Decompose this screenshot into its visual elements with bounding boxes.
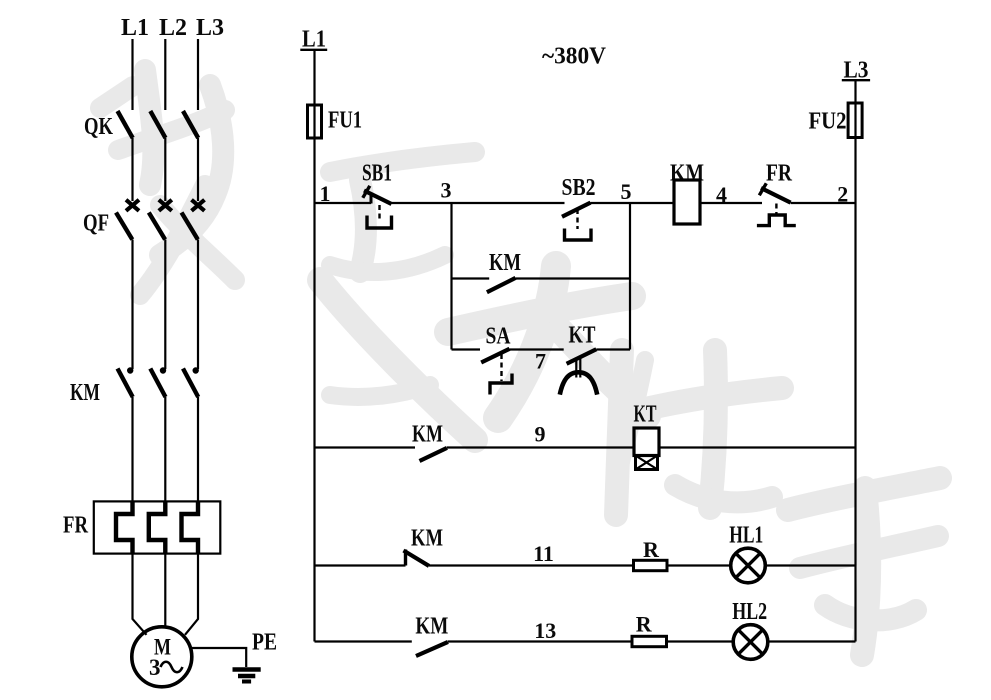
time relay coil KT delay element xyxy=(636,456,658,470)
svg-text:5: 5 xyxy=(621,179,632,204)
wire branch left vertical (node 3) xyxy=(450,203,452,350)
svg-text:KT: KT xyxy=(569,323,596,349)
svg-text:L1: L1 xyxy=(121,15,149,41)
wire phase3 KM to FR xyxy=(197,397,199,502)
wire FR to right rail xyxy=(791,202,856,204)
contactor KM main pole3 contact xyxy=(183,367,199,397)
wire rail to KM contact (rung4) xyxy=(315,640,412,642)
timed contact KT (NO delayed) xyxy=(560,349,597,394)
wire HL2 to right rail xyxy=(768,640,856,642)
svg-text:2: 2 xyxy=(837,182,848,207)
time relay coil KT body xyxy=(634,428,659,456)
wire R to HL2 xyxy=(667,640,734,642)
svg-text:~380V: ~380V xyxy=(542,44,607,70)
wire motor to PE xyxy=(192,648,246,667)
lamp HL2 xyxy=(733,625,768,660)
svg-text:PE: PE xyxy=(252,630,277,656)
wire KT contact to branch right xyxy=(596,348,630,350)
svg-text:11: 11 xyxy=(533,541,554,566)
contactor KM main pole2 contact xyxy=(150,367,166,397)
contactor coil KM xyxy=(674,180,700,224)
breaker QF pole3 cross mark xyxy=(192,200,205,211)
wire phase2 QF to KM xyxy=(164,240,166,370)
svg-text:L2: L2 xyxy=(159,15,187,41)
fuse FU2 xyxy=(848,103,862,138)
motor 3-phase mark xyxy=(149,655,183,680)
svg-text:L3: L3 xyxy=(196,15,224,41)
wire KM contact to KT coil xyxy=(447,446,634,448)
thermal relay FR heater phase3 xyxy=(182,501,199,553)
thermal relay FR heater phase1 xyxy=(116,501,133,553)
wire SB1 to SB2 xyxy=(392,202,565,204)
contact KM (NC, rung3) xyxy=(404,550,430,566)
wire phase1 QK to QF xyxy=(131,138,133,201)
svg-text:KM: KM xyxy=(412,422,443,448)
wire R to HL1 xyxy=(667,564,731,566)
wire phase2 QK to QF xyxy=(164,138,166,201)
wire phase1 FR to motor xyxy=(133,554,147,635)
wire phase3 FR to motor xyxy=(185,554,198,635)
svg-text:KM: KM xyxy=(411,526,443,552)
wire phase1 KM to FR xyxy=(131,397,133,502)
svg-text:KM: KM xyxy=(489,250,521,276)
svg-text:SB2: SB2 xyxy=(562,175,596,201)
svg-text:R: R xyxy=(636,612,653,637)
resistor R (rung4) xyxy=(632,636,667,646)
svg-text:SB1: SB1 xyxy=(362,161,392,187)
wire phase2 FR to motor xyxy=(164,554,166,627)
svg-text:FU2: FU2 xyxy=(809,109,847,135)
svg-text:FU1: FU1 xyxy=(328,108,362,134)
svg-text:HL2: HL2 xyxy=(732,599,767,625)
wire KT coil to right rail xyxy=(659,446,856,448)
switch SA (manual) xyxy=(481,349,512,395)
watermark stroke group xyxy=(100,70,940,655)
wire phase3 QK to QF xyxy=(197,138,199,201)
ground symbol xyxy=(233,670,261,682)
knife switch QK pole 1 blade xyxy=(118,111,133,138)
motor M circle xyxy=(132,627,192,687)
svg-text:SA: SA xyxy=(486,324,512,350)
svg-text:FR: FR xyxy=(766,161,793,187)
svg-text:3: 3 xyxy=(441,178,452,203)
wire rail to KM contact (rung3) xyxy=(315,564,406,566)
contact KM (NO, rung4) blade xyxy=(416,642,448,656)
resistor R (rung3) xyxy=(634,560,668,570)
breaker QF pole2 cross mark xyxy=(159,200,172,211)
contact KM (NO, rung2) blade xyxy=(420,448,448,461)
wire L3 top drop xyxy=(197,39,199,110)
wire SB2 to KM coil xyxy=(590,202,674,204)
wire left rail xyxy=(313,50,315,642)
wire HL1 to right rail xyxy=(765,564,855,566)
svg-text:R: R xyxy=(643,537,660,562)
wire right rail xyxy=(854,80,856,641)
pushbutton SB2 (NO start) xyxy=(562,203,591,240)
svg-text:9: 9 xyxy=(535,422,546,447)
svg-text:7: 7 xyxy=(535,349,546,374)
svg-text:KT: KT xyxy=(634,402,657,428)
knife switch QK pole 3 blade xyxy=(183,111,198,138)
wire KM aux row right xyxy=(516,277,631,279)
thermal relay FR box xyxy=(94,501,221,553)
svg-text:FR: FR xyxy=(63,513,89,539)
node L1 terminal bar xyxy=(300,49,327,51)
svg-text:3: 3 xyxy=(149,655,161,680)
svg-text:4: 4 xyxy=(716,182,727,207)
thermal relay FR heater phase2 xyxy=(149,501,166,553)
wire L2 top drop xyxy=(164,39,166,110)
svg-text:KM: KM xyxy=(415,614,448,640)
wire branch right vertical (node 5) xyxy=(629,203,631,350)
svg-text:QF: QF xyxy=(83,211,109,237)
wire rail to SB1 xyxy=(315,202,372,204)
svg-text:KM: KM xyxy=(70,380,100,406)
wire L1 top drop xyxy=(131,39,133,110)
svg-text:HL1: HL1 xyxy=(729,523,763,549)
wire KM contact to R (rung3) xyxy=(429,564,634,566)
breaker QF pole1 cross mark xyxy=(126,200,139,211)
auxiliary contact KM (NO) blade xyxy=(487,278,516,292)
node L3 terminal bar xyxy=(842,79,870,81)
svg-text:13: 13 xyxy=(534,618,556,643)
wire SA row left xyxy=(452,348,481,350)
breaker QF pole2 blade xyxy=(149,213,165,240)
lamp HL1 xyxy=(731,548,766,583)
wire KM coil to FR contact xyxy=(700,202,762,204)
fuse FU1 xyxy=(308,105,322,138)
svg-text:QK: QK xyxy=(84,114,113,140)
wire phase3 QF to KM xyxy=(197,240,199,370)
pushbutton SB1 (NC stop) xyxy=(363,186,392,228)
contactor KM main pole1 contact xyxy=(118,367,134,397)
breaker QF pole1 blade xyxy=(116,213,132,240)
wire KM aux row left xyxy=(452,277,490,279)
wire rail to KM contact (rung2) xyxy=(315,446,416,448)
thermal contact FR (NC) xyxy=(757,183,796,225)
knife switch QK pole 2 blade xyxy=(150,111,165,138)
breaker QF pole3 blade xyxy=(182,213,198,240)
wire phase2 KM to FR xyxy=(164,397,166,502)
wire SA to KT contact xyxy=(510,348,564,350)
wire KM contact to R (rung4) xyxy=(448,640,632,642)
wire phase1 QF to KM xyxy=(131,240,133,370)
